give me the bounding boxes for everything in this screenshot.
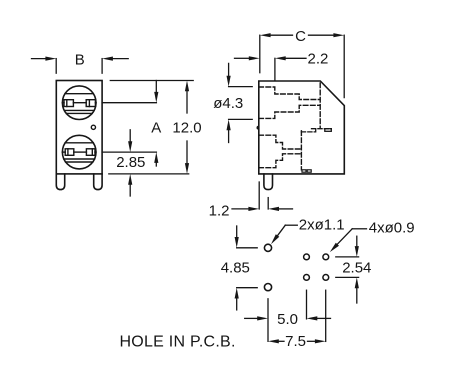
- dimension A top arrow: [154, 81, 158, 103]
- PCB hole big top: [264, 244, 271, 251]
- PCB hole small bottom-right: [323, 275, 329, 281]
- PCB hole small top-right: [323, 254, 329, 260]
- svg-text:1.2: 1.2: [209, 202, 230, 219]
- dimension 2.54 lower extension line: [336, 276, 359, 278]
- front view LED 1 internals: [62, 94, 96, 114]
- dimension 1.2 right extension line: [267, 198, 269, 209]
- svg-text:4.85: 4.85: [221, 259, 250, 276]
- svg-text:7.5: 7.5: [285, 333, 306, 350]
- dimension 2.54 top arrow: [355, 236, 359, 257]
- front view LED 2 circle: [62, 135, 96, 169]
- side view lower LED lead hook: [301, 129, 315, 132]
- dimension 7.5 small-hole extension line: [325, 290, 327, 341]
- dimension B left arrow: [32, 57, 57, 61]
- dimension 5.0 small-hole extension line: [306, 290, 308, 319]
- dimension 5.0 right arrow: [307, 316, 331, 320]
- dimension 1.2 right arrow: [268, 207, 292, 211]
- dimension B right arrow: [102, 57, 128, 61]
- dimension C right extension line: [343, 35, 345, 97]
- dimension 1.2 left extension line: [258, 182, 260, 209]
- svg-text:A: A: [151, 119, 161, 136]
- dimension B extension line left: [55, 59, 57, 74]
- dimension 5.0/7.5 big-hole extension line: [267, 299, 269, 342]
- dimension 12.0 bottom arrow: [185, 141, 189, 174]
- side view leg: [264, 174, 273, 190]
- dimension 4.85 lower extension line: [237, 287, 258, 289]
- PCB hole small bottom-left: [304, 275, 310, 281]
- dimension 7.5 right arrow: [308, 339, 326, 343]
- dimension 4.3 top arrow: [227, 63, 231, 86]
- svg-text:12.0: 12.0: [172, 119, 201, 136]
- front view index hole: [91, 125, 95, 129]
- svg-text:B: B: [75, 52, 85, 69]
- dimension 2.2 left arrow: [235, 56, 260, 60]
- front view left leg: [56, 174, 64, 190]
- dimension 12.0 top extension line: [110, 80, 193, 82]
- svg-text:2.2: 2.2: [308, 51, 329, 68]
- dimension 2.85 bottom arrow: [128, 174, 132, 196]
- svg-text:2.54: 2.54: [342, 259, 371, 276]
- front view LED 1 circle: [62, 86, 96, 120]
- svg-text:ø4.3: ø4.3: [213, 95, 243, 112]
- dimension 4.3 bottom arrow: [227, 119, 231, 142]
- side view upper LED hidden outline: [259, 87, 320, 118]
- side view upper LED lead foot: [312, 129, 332, 132]
- dimension 5.0 left arrow: [245, 316, 268, 320]
- svg-text:4xø0.9: 4xø0.9: [369, 219, 415, 236]
- svg-text:2xø1.1: 2xø1.1: [299, 217, 345, 234]
- dimension 1.2 left arrow: [232, 207, 259, 211]
- leader 4x dia 0.9: [330, 229, 367, 252]
- side view lower LED hidden outline: [259, 135, 302, 168]
- dimension A bottom arrow: [154, 152, 158, 166]
- bottom extension line: [109, 173, 189, 175]
- side view stand-off feet: [302, 170, 311, 172]
- dimension 7.5 left arrow: [268, 339, 284, 343]
- dimension 4.3 upper extension line: [229, 86, 253, 88]
- dimension 12.0 top arrow: [185, 81, 189, 114]
- dimension 2.85 top arrow: [128, 130, 132, 152]
- dimension 4.85 upper extension line: [237, 247, 258, 249]
- svg-text:HOLE IN P.C.B.: HOLE IN P.C.B.: [120, 334, 236, 351]
- side view index bump: [257, 126, 259, 130]
- dimension 2.54 upper extension line: [336, 256, 359, 258]
- front view right leg: [94, 174, 102, 190]
- LED1 centre extension line: [102, 102, 156, 104]
- svg-text:C: C: [295, 28, 306, 45]
- side view body outline: [259, 81, 345, 174]
- dimension 2.2 extension line: [274, 58, 276, 80]
- dimension 2.2 right arrow: [275, 56, 306, 60]
- front view body: [56, 81, 102, 174]
- front view LED 2 internals: [62, 143, 96, 162]
- dimension C left arrow: [260, 33, 293, 37]
- dimension C left extension line: [259, 35, 261, 72]
- PCB hole big bottom: [264, 284, 271, 291]
- svg-text:2.85: 2.85: [116, 154, 145, 171]
- dimension 4.85 bottom arrow: [235, 288, 239, 310]
- dimension 4.85 top arrow: [235, 226, 239, 248]
- LED2 centre extension line: [102, 151, 156, 153]
- svg-text:5.0: 5.0: [277, 311, 298, 328]
- dimension B extension line right: [101, 59, 103, 74]
- dimension 4.3 lower extension line: [229, 118, 253, 120]
- side view upper LED front face hidden line: [319, 83, 321, 128]
- PCB hole small top-left: [304, 254, 310, 260]
- dimension 2.54 bottom arrow: [355, 277, 359, 303]
- leader 2x dia 1.1: [271, 225, 297, 244]
- side view lower LED front face hidden line: [300, 131, 302, 170]
- dimension C right arrow: [309, 33, 345, 37]
